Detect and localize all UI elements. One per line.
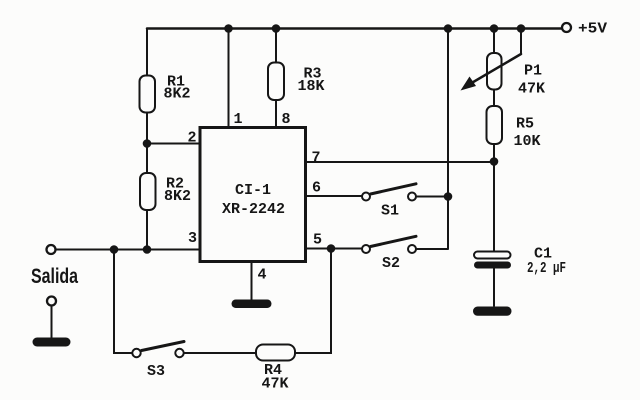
svg-text:+5V: +5V: [578, 21, 607, 38]
switch S1: [362, 193, 370, 201]
potentiometer P1: [487, 53, 502, 90]
svg-text:8K2: 8K2: [164, 188, 191, 205]
wire C1 to ground: [493, 269, 495, 307]
svg-text:CI-1: CI-1: [235, 182, 271, 199]
op-amp U1 IC CI-1 XR-2242 box: [200, 128, 306, 262]
resistor R3: [268, 63, 284, 101]
wire to ground: [51, 306, 53, 338]
node rail R3: [272, 24, 281, 33]
wire bus x448: [447, 29, 449, 249]
wire rail to P1: [493, 29, 495, 54]
resistor R5: [487, 106, 503, 144]
wire pin 4: [251, 262, 253, 301]
node rail P1: [490, 24, 499, 33]
wire R4 to pin5: [295, 249, 331, 354]
svg-text:47K: 47K: [518, 81, 545, 98]
node pin2 junction: [143, 139, 152, 148]
terminal Salida output: [47, 245, 56, 254]
terminal +5V: [562, 23, 571, 32]
svg-text:R5: R5: [516, 116, 534, 133]
svg-text:7: 7: [312, 150, 321, 167]
svg-text:8K2: 8K2: [164, 86, 191, 103]
node rail bus: [444, 24, 453, 33]
svg-text:3: 3: [188, 230, 197, 247]
svg-text:5: 5: [313, 232, 322, 249]
wire P1 to R5: [493, 90, 495, 107]
node S1 bus: [444, 192, 453, 201]
wire pin 5: [306, 248, 363, 250]
svg-text:6: 6: [312, 180, 321, 197]
switch S3: [132, 349, 140, 357]
svg-text:S1: S1: [381, 203, 399, 220]
wire P1 wiper arrow: [520, 29, 522, 55]
wire R2 to output rail: [146, 210, 148, 250]
wire pin 7: [306, 161, 495, 163]
svg-text:XR-2242: XR-2242: [222, 201, 285, 218]
node rail wiper: [517, 24, 526, 33]
svg-text:S2: S2: [382, 255, 400, 272]
ground salida: [33, 338, 71, 347]
node rail pin1: [224, 24, 233, 33]
wire pin1: [228, 29, 230, 128]
ground pin4: [232, 300, 272, 309]
svg-text:8: 8: [282, 111, 291, 128]
terminal Salida ground side: [47, 297, 56, 306]
resistor R4: [256, 345, 295, 361]
wire R5 to node: [493, 144, 495, 252]
resistor R2: [140, 173, 156, 210]
wire R3 to pin8: [275, 100, 277, 128]
wire rail to R1: [146, 29, 148, 77]
wire pin 2: [147, 143, 200, 145]
node R2 bottom: [143, 245, 152, 254]
wire top +5V rail: [147, 27, 562, 30]
svg-text:47K: 47K: [262, 376, 289, 393]
svg-text:1: 1: [234, 111, 243, 128]
resistor R1: [140, 76, 156, 113]
wire output rail pin3: [56, 249, 201, 251]
svg-text:18K: 18K: [298, 78, 325, 95]
svg-text:Salida: Salida: [31, 265, 78, 288]
wire S2 to bus: [416, 248, 448, 250]
node pin7 C1: [490, 157, 499, 166]
svg-text:4: 4: [258, 267, 267, 284]
svg-text:10K: 10K: [514, 133, 541, 150]
svg-text:2,2 µF: 2,2 µF: [527, 260, 566, 277]
wire S1 to bus: [416, 196, 448, 198]
switch S2: [362, 245, 370, 253]
wire rail to R3: [275, 29, 277, 63]
wire S3 branch down: [114, 250, 132, 354]
wire R1 to R2: [146, 113, 148, 174]
svg-text:S3: S3: [147, 363, 165, 380]
svg-text:2: 2: [188, 130, 197, 147]
wire S3 to R4: [184, 352, 256, 354]
ground C1: [473, 307, 512, 316]
wire pin 6: [306, 195, 363, 197]
svg-text:P1: P1: [524, 63, 542, 80]
node output S3 branch: [110, 245, 119, 254]
capacitor C1: [474, 252, 511, 259]
node pin5 junction: [327, 244, 336, 253]
